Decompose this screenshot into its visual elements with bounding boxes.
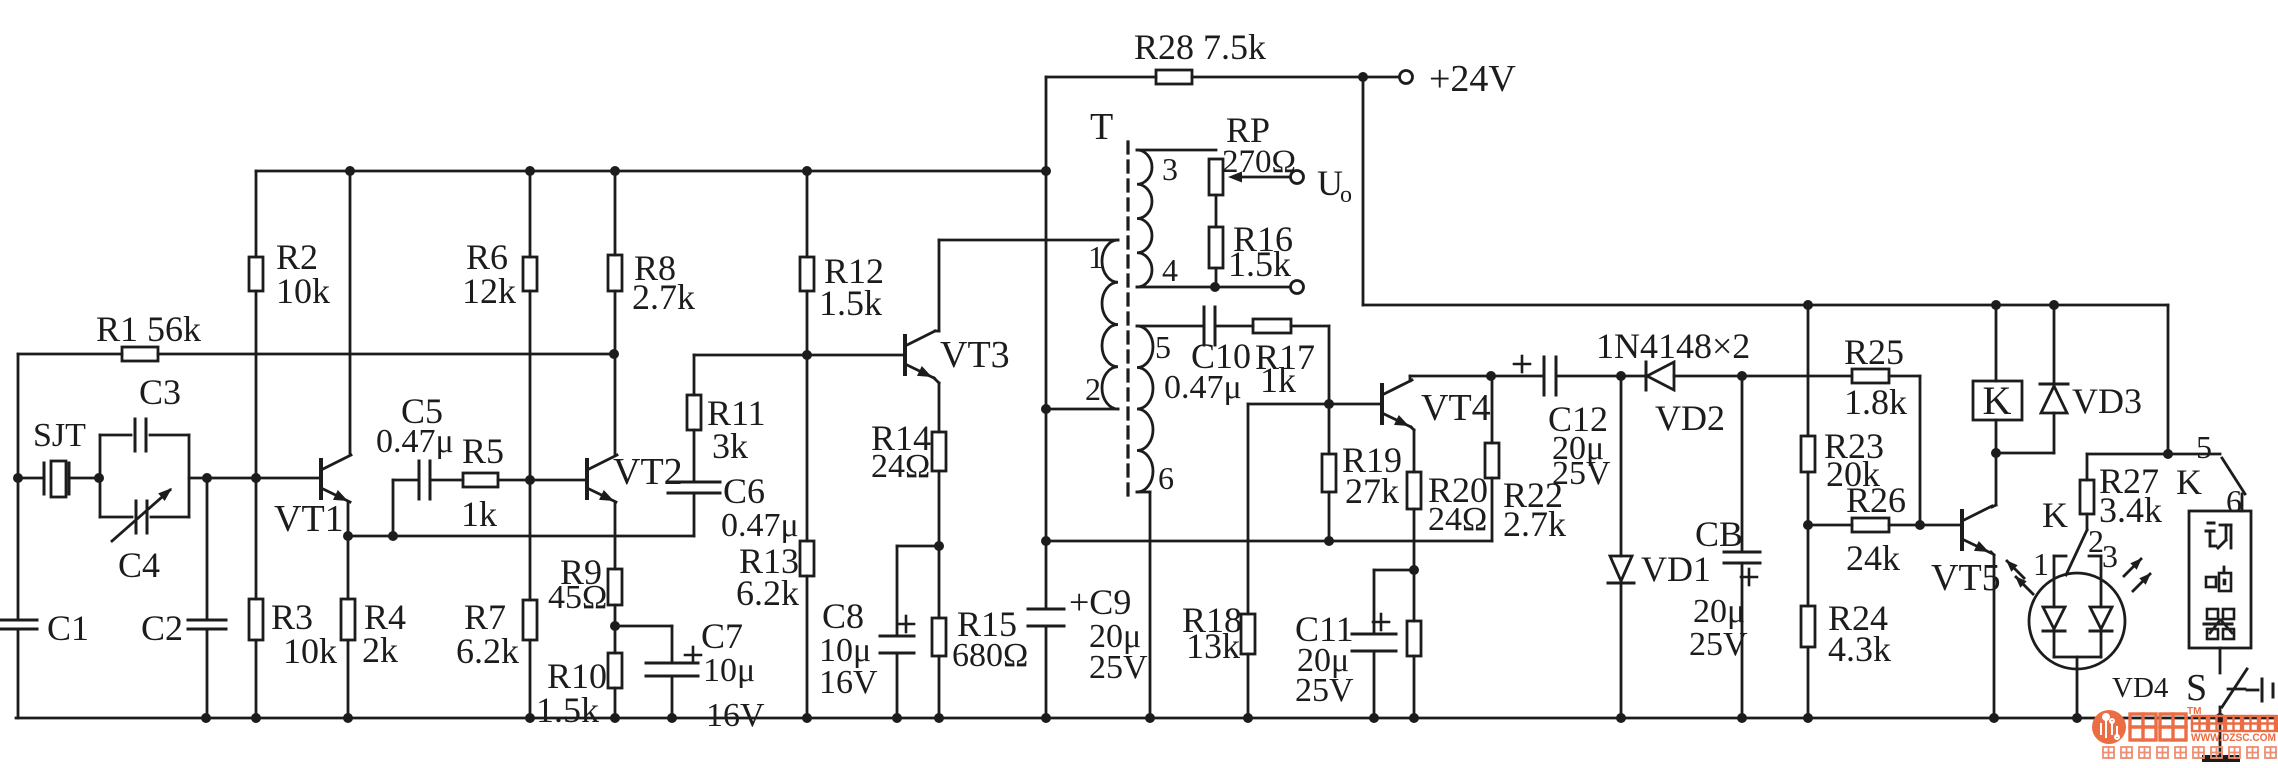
svg-text:K: K	[2176, 462, 2202, 502]
svg-text:10k: 10k	[283, 631, 337, 671]
svg-text:S: S	[2186, 667, 2207, 709]
svg-text:R28 7.5k: R28 7.5k	[1134, 27, 1266, 67]
svg-text:C8: C8	[822, 596, 864, 636]
svg-text:C2: C2	[141, 608, 183, 648]
svg-text:C4: C4	[118, 545, 160, 585]
svg-text:5: 5	[1155, 329, 1171, 365]
svg-text:4: 4	[1162, 252, 1178, 288]
svg-text:16V: 16V	[819, 664, 878, 701]
svg-text:680Ω: 680Ω	[952, 637, 1028, 674]
svg-text:2: 2	[1085, 371, 1101, 407]
svg-text:C7: C7	[701, 616, 743, 656]
svg-text:24Ω: 24Ω	[871, 448, 930, 485]
svg-text:10μ: 10μ	[703, 652, 755, 689]
svg-text:1N4148×2: 1N4148×2	[1596, 326, 1750, 366]
svg-text:6.2k: 6.2k	[736, 573, 799, 613]
svg-text:25V: 25V	[1552, 455, 1611, 492]
svg-text:270Ω: 270Ω	[1222, 144, 1296, 180]
svg-text:2.7k: 2.7k	[632, 277, 695, 317]
svg-text:4.3k: 4.3k	[1828, 629, 1891, 669]
svg-text:VT3: VT3	[940, 334, 1010, 376]
svg-text:VT2: VT2	[613, 451, 683, 493]
svg-text:R26: R26	[1846, 480, 1906, 520]
svg-text:3k: 3k	[712, 426, 748, 466]
svg-text:0.47μ: 0.47μ	[721, 507, 799, 544]
svg-text:VD2: VD2	[1655, 398, 1725, 438]
svg-text:VD1: VD1	[1641, 549, 1711, 589]
svg-text:R25: R25	[1844, 332, 1904, 372]
svg-text:R1 56k: R1 56k	[96, 309, 201, 349]
svg-text:VD3: VD3	[2072, 381, 2142, 421]
svg-text:16V: 16V	[706, 697, 765, 734]
svg-text:24Ω: 24Ω	[1428, 501, 1487, 538]
svg-text:1k: 1k	[1260, 360, 1296, 400]
svg-text:27k: 27k	[1345, 471, 1399, 511]
svg-text:2k: 2k	[362, 630, 398, 670]
svg-text:25V: 25V	[1089, 649, 1148, 686]
svg-text:1.5k: 1.5k	[1228, 244, 1291, 284]
svg-text:+24V: +24V	[1429, 58, 1516, 100]
svg-text:C6: C6	[723, 471, 765, 511]
svg-text:24k: 24k	[1846, 538, 1900, 578]
svg-text:SJT: SJT	[33, 417, 86, 454]
svg-text:10k: 10k	[276, 271, 330, 311]
svg-text:1.5k: 1.5k	[536, 690, 599, 730]
svg-text:1: 1	[1088, 239, 1104, 275]
svg-text:6: 6	[2226, 483, 2242, 519]
svg-text:C1: C1	[47, 608, 89, 648]
svg-text:T: T	[1090, 106, 1113, 148]
svg-text:CB: CB	[1695, 514, 1743, 554]
svg-text:3: 3	[2102, 538, 2118, 574]
svg-text:2.7k: 2.7k	[1503, 504, 1566, 544]
svg-text:+C9: +C9	[1069, 582, 1131, 622]
svg-text:3.4k: 3.4k	[2099, 490, 2162, 530]
svg-text:6: 6	[1158, 460, 1174, 496]
svg-text:VT5: VT5	[1931, 557, 2001, 599]
svg-text:1: 1	[2033, 546, 2049, 582]
svg-text:0.47μ: 0.47μ	[1164, 369, 1242, 406]
svg-text:o: o	[1340, 182, 1352, 208]
svg-text:WWW.DZSC.COM: WWW.DZSC.COM	[2191, 732, 2276, 744]
svg-text:1k: 1k	[461, 494, 497, 534]
svg-text:1.8k: 1.8k	[1844, 382, 1907, 422]
svg-text:20μ: 20μ	[1693, 593, 1745, 630]
svg-text:R5: R5	[462, 431, 504, 471]
svg-text:0.47μ: 0.47μ	[376, 423, 454, 460]
svg-text:13k: 13k	[1186, 626, 1240, 666]
svg-text:1.5k: 1.5k	[819, 283, 882, 323]
svg-text:K: K	[1983, 378, 2012, 423]
svg-text:3: 3	[1162, 151, 1178, 187]
svg-text:5: 5	[2196, 429, 2212, 465]
svg-text:VD4: VD4	[2112, 672, 2169, 704]
svg-text:VT1: VT1	[274, 498, 344, 540]
svg-text:45Ω: 45Ω	[548, 579, 607, 616]
svg-text:C3: C3	[139, 372, 181, 412]
svg-text:12k: 12k	[462, 271, 516, 311]
svg-text:VT4: VT4	[1421, 387, 1491, 429]
svg-text:6.2k: 6.2k	[456, 631, 519, 671]
svg-text:25V: 25V	[1295, 672, 1354, 709]
svg-text:K: K	[2042, 495, 2068, 535]
svg-text:25V: 25V	[1689, 626, 1748, 663]
